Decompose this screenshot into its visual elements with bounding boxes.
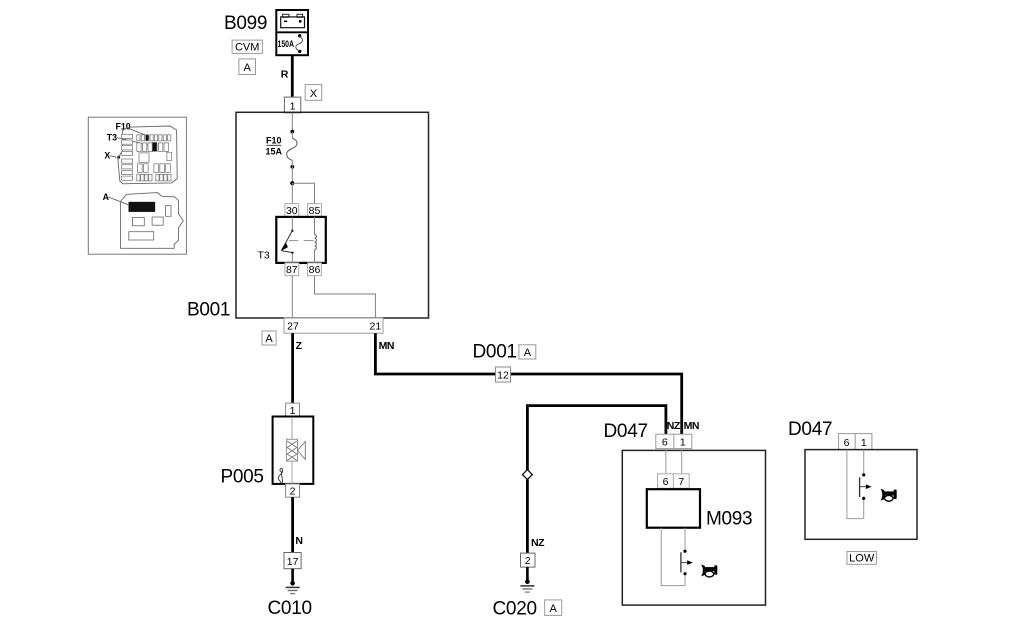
label LOW box <box>847 552 876 565</box>
label D001 <box>473 342 517 363</box>
inset label A <box>103 192 129 205</box>
pin 30 <box>285 204 299 218</box>
wire pin 1 leg (LOW) <box>863 450 865 519</box>
connector A box (D001) <box>519 345 536 359</box>
svg-text:A: A <box>244 62 252 74</box>
pin 2 (P005) <box>286 484 300 498</box>
svg-text:C020: C020 <box>493 599 537 620</box>
ground C020 <box>520 567 534 592</box>
connector pins 6 1 (D047) <box>656 434 692 448</box>
inset fuse-box location detail <box>88 117 186 254</box>
inset module parts <box>129 202 171 240</box>
svg-text:F10: F10 <box>266 135 282 145</box>
horn box D047 LOW <box>805 450 917 540</box>
label D047 (LOW variant) <box>788 419 832 440</box>
pin 85 <box>308 204 322 218</box>
svg-text:LOW: LOW <box>849 553 875 565</box>
svg-text:A: A <box>265 333 273 345</box>
svg-text:D047: D047 <box>604 421 648 442</box>
wire NZ to C020 <box>526 480 529 553</box>
horn button switch (LOW) <box>860 473 872 500</box>
horn P005 box <box>273 417 314 484</box>
svg-text:6: 6 <box>844 437 850 449</box>
fuse 150A inside B099 <box>278 34 303 53</box>
wire pin1 to F10 <box>291 113 293 132</box>
svg-text:A: A <box>550 603 558 615</box>
svg-text:150A: 150A <box>278 39 295 49</box>
battery B099 <box>276 10 308 55</box>
svg-text:1: 1 <box>290 405 296 417</box>
wire label NZ (D047) <box>667 420 681 432</box>
label C010 <box>268 598 312 619</box>
svg-text:86: 86 <box>309 264 321 276</box>
svg-text:1: 1 <box>861 437 867 449</box>
svg-text:30: 30 <box>286 205 298 217</box>
svg-text:C010: C010 <box>268 598 312 619</box>
inset label F10 <box>116 122 148 136</box>
svg-text:6: 6 <box>662 436 668 448</box>
connector strip pins 27 21 <box>284 318 383 333</box>
inset label X <box>104 150 120 160</box>
horn element inside P005 <box>286 417 305 484</box>
svg-text:B001: B001 <box>187 300 230 321</box>
splice diamond <box>523 470 533 480</box>
label B001 <box>187 300 230 321</box>
relay switch contact <box>281 217 294 263</box>
svg-text:D047: D047 <box>788 419 832 440</box>
ECU box B001 <box>236 112 429 318</box>
svg-text:T3: T3 <box>107 132 117 142</box>
svg-text:27: 27 <box>287 320 299 332</box>
splice 12 <box>496 367 511 382</box>
svg-text:15A: 15A <box>266 147 283 157</box>
pin 17 (C010) <box>284 553 301 569</box>
svg-text:85: 85 <box>309 205 321 217</box>
wire label MN <box>379 340 394 352</box>
inset fusebox outline <box>118 126 177 184</box>
pin 1 (B001 top) <box>284 97 300 113</box>
svg-text:NZ: NZ <box>667 420 681 432</box>
horn icon (LOW) <box>881 489 897 501</box>
wire M093 right leg <box>684 528 686 586</box>
wire pin 6 leg (LOW) <box>847 450 864 519</box>
ground C010 <box>286 569 300 594</box>
svg-text:N: N <box>295 535 302 547</box>
connector A box (B099) <box>239 59 256 75</box>
relay T3 box <box>276 217 326 263</box>
junction node <box>290 181 294 185</box>
inset fuse grid <box>122 134 172 181</box>
wire label Z <box>296 340 303 352</box>
svg-text:6: 6 <box>663 476 669 488</box>
horn box D047 <box>622 450 765 605</box>
svg-text:X: X <box>310 88 318 100</box>
pin 2 (C020) <box>521 553 536 567</box>
label C020 <box>493 599 537 620</box>
horn module M093 <box>647 489 700 528</box>
svg-text:1: 1 <box>290 100 296 112</box>
svg-text:12: 12 <box>497 369 509 381</box>
wire label NZ (C020) <box>531 537 545 549</box>
wire pin 87 to pin 27 <box>291 276 293 333</box>
svg-text:NZ: NZ <box>531 537 545 549</box>
svg-text:P005: P005 <box>221 467 264 488</box>
relay coil <box>315 217 317 263</box>
svg-text:D001: D001 <box>473 342 517 363</box>
wire M093 left leg <box>661 528 685 586</box>
svg-text:1: 1 <box>680 436 686 448</box>
svg-text:7: 7 <box>678 476 684 488</box>
pin 86 <box>308 263 322 276</box>
connector A box (C020) <box>545 600 562 616</box>
wire label N <box>295 535 302 547</box>
svg-text:CVM: CVM <box>235 42 259 54</box>
wire label R <box>281 68 289 80</box>
label B099 <box>224 13 267 34</box>
wire N <box>291 497 294 552</box>
svg-text:X: X <box>104 150 110 160</box>
label M093 <box>706 509 752 530</box>
relay mechanical link (dashed) <box>289 240 314 242</box>
wire junction to pin 85 <box>292 183 314 203</box>
svg-text:2: 2 <box>525 555 531 567</box>
wire label MN (D047) <box>684 420 699 432</box>
wire junction to pin 30 <box>291 183 293 203</box>
wire pin 6 down <box>665 449 667 474</box>
horn icon (M093) <box>701 564 717 576</box>
svg-text:MN: MN <box>684 420 699 432</box>
connector CVM box <box>232 40 262 54</box>
wire MN <box>375 333 681 434</box>
wire R <box>291 55 294 97</box>
svg-text:21: 21 <box>370 320 382 332</box>
fuse F10 15A <box>266 130 298 169</box>
svg-text:M093: M093 <box>706 509 752 530</box>
connector X box <box>305 85 322 101</box>
pin 87 <box>285 263 299 276</box>
svg-text:MN: MN <box>379 340 394 352</box>
wire pin 86 to pin 21 <box>315 276 376 333</box>
inset label T3 <box>107 132 153 146</box>
wire pin 1 down <box>681 449 683 474</box>
label T3 <box>258 250 270 262</box>
treble clef mark <box>279 469 283 483</box>
svg-text:A: A <box>524 347 532 359</box>
svg-text:2: 2 <box>290 486 296 498</box>
svg-text:87: 87 <box>286 264 298 276</box>
connector pins 6 7 (M093) <box>658 474 690 488</box>
svg-text:R: R <box>281 68 289 80</box>
label D047 (M093 variant) <box>604 421 648 442</box>
svg-text:B099: B099 <box>224 13 267 34</box>
label P005 <box>221 467 264 488</box>
wire Z <box>291 333 294 403</box>
inset module outline <box>121 193 184 249</box>
pin 1 (P005) <box>286 403 300 417</box>
svg-text:T3: T3 <box>258 250 270 262</box>
connector A box (B001) <box>262 331 276 345</box>
wire F10 to junction <box>291 167 293 183</box>
wire NZ horizontal run <box>527 406 666 470</box>
svg-text:17: 17 <box>287 556 299 568</box>
connector pins 6 1 (D047 LOW) <box>839 434 872 450</box>
horn button switch (M093) <box>681 550 693 576</box>
